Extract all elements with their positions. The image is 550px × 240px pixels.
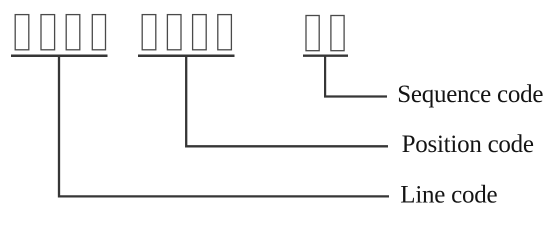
digit box group 2 box 4 (218, 15, 232, 50)
underline bar group 2 (138, 54, 235, 57)
digit box group 1 box 4 (92, 15, 105, 50)
underline bar group 1 (11, 54, 108, 57)
digit box group 3 box 2 (331, 16, 344, 51)
digit box group 2 box 2 (167, 15, 181, 50)
digit box group 2 box 3 (193, 15, 207, 50)
leader line to Position code (186, 56, 388, 147)
leader line to Sequence code (325, 56, 387, 97)
digit box group 2 box 1 (142, 15, 156, 50)
underline bar group 3 (303, 55, 348, 57)
svg-text:Position code: Position code (402, 131, 534, 158)
leader line to Line code (59, 56, 389, 197)
svg-text:Line code: Line code (400, 182, 497, 209)
digit box group 1 box 1 (15, 15, 29, 50)
digit box group 1 box 2 (41, 15, 55, 50)
digit box group 1 box 3 (66, 15, 80, 50)
svg-text:Sequence code: Sequence code (397, 81, 543, 108)
digit box group 3 box 1 (306, 16, 319, 51)
